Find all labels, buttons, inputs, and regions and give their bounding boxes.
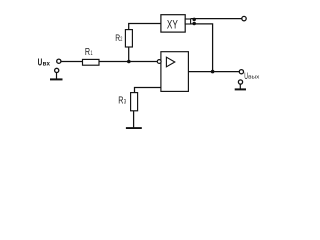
ground (R3) (126, 127, 142, 129)
XY output port box (185, 19, 190, 24)
wire: R3 bottom lead (133, 111, 135, 128)
input lower terminal circle (55, 68, 59, 72)
wire: R2 top lead to XY block (129, 24, 161, 30)
op-amp triangle symbol (166, 57, 174, 67)
op-amp U1 box (161, 52, 189, 92)
wire: non-inverting input to R3 (135, 88, 161, 93)
wire: R2 bottom lead (128, 47, 130, 62)
svg-text:вх: вх (43, 60, 51, 67)
multiplier block XY (161, 15, 185, 32)
label Uвых (244, 71, 259, 81)
node: R1/R2/op-amp junction (127, 60, 131, 64)
node on XY bottom output (192, 22, 196, 26)
label R1 (85, 47, 93, 58)
node: output junction (211, 70, 215, 74)
wire: XY bottom output down to op-amp output net (191, 24, 213, 72)
output lower terminal circle (238, 80, 242, 84)
label R3 (118, 95, 126, 106)
output terminal circle Uвых (239, 70, 243, 74)
resistor R1 (83, 59, 100, 65)
svg-text:1: 1 (91, 50, 93, 57)
inverting input circle of op-amp (157, 60, 161, 64)
wire: op-amp output to output terminal (188, 71, 239, 73)
ground (output) (235, 84, 246, 89)
svg-text:вых: вых (248, 75, 259, 81)
resistor R3 (131, 93, 138, 111)
node on XY top output (192, 18, 196, 22)
label Uвх (38, 57, 51, 68)
svg-text:XY: XY (167, 18, 178, 31)
svg-text:R: R (85, 47, 90, 58)
wire: input terminal to R1 (61, 61, 83, 63)
terminal circle (top right) (242, 16, 246, 20)
svg-text:R: R (118, 95, 123, 106)
ground (input) (50, 73, 63, 80)
svg-text:3: 3 (124, 98, 127, 105)
wire: R1 to op-amp inverting input (99, 61, 157, 63)
wire: XY top output to terminal (191, 18, 242, 20)
svg-text:2: 2 (120, 36, 122, 43)
input terminal circle Uвх (57, 59, 61, 63)
resistor R2 (125, 30, 132, 47)
label R2 (115, 32, 123, 43)
svg-text:U: U (38, 57, 43, 68)
